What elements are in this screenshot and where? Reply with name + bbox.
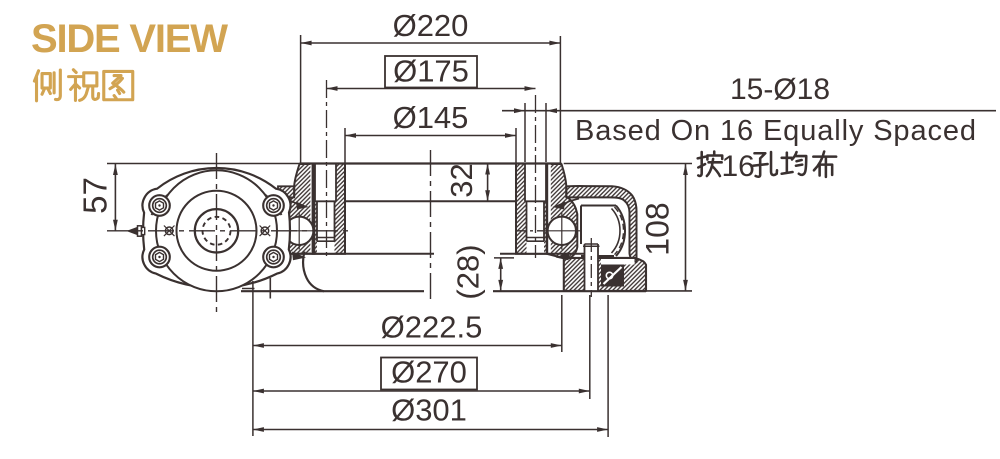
svg-text:Based On 16 Equally Spaced: Based On 16 Equally Spaced <box>575 115 976 147</box>
svg-text:Ø222.5: Ø222.5 <box>381 310 483 345</box>
svg-text:Ø175: Ø175 <box>393 54 469 89</box>
svg-text:16: 16 <box>722 150 755 183</box>
svg-text:32: 32 <box>444 163 479 197</box>
svg-text:57: 57 <box>77 177 114 214</box>
svg-text:(28): (28) <box>451 244 486 299</box>
svg-text:Ø270: Ø270 <box>391 355 467 390</box>
svg-text:Ø220: Ø220 <box>393 8 469 43</box>
svg-text:Ø145: Ø145 <box>393 100 469 135</box>
svg-text:15-Ø18: 15-Ø18 <box>730 73 830 106</box>
svg-text:108: 108 <box>640 202 676 255</box>
svg-text:Ø301: Ø301 <box>391 393 467 428</box>
svg-text:SIDE VIEW: SIDE VIEW <box>31 17 228 61</box>
